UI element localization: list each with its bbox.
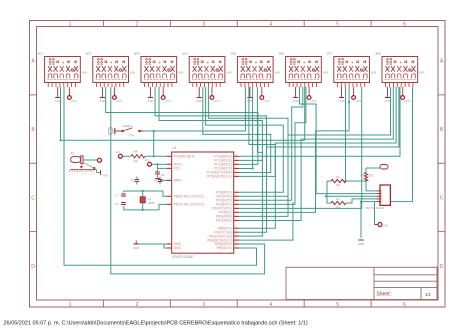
svg-text:GND: GND	[133, 246, 139, 250]
svg-text:K1: K1	[71, 152, 75, 156]
svg-text:+3V3: +3V3	[116, 99, 123, 103]
svg-text:1X09: 1X09	[128, 71, 136, 75]
svg-text:PC6(/RESET): PC6(/RESET)	[174, 155, 195, 159]
svg-text:GND: GND	[55, 99, 61, 103]
svg-text:ATMEGA328P: ATMEGA328P	[172, 255, 194, 259]
svg-text:GND: GND	[102, 174, 108, 178]
svg-text:6: 6	[403, 302, 406, 308]
svg-text:D: D	[440, 264, 444, 270]
svg-text:C4: C4	[154, 178, 158, 182]
svg-text:R2: R2	[336, 197, 340, 201]
svg-text:JP5: JP5	[230, 52, 236, 56]
svg-text:+3V3: +3V3	[71, 99, 78, 103]
svg-text:JP4: JP4	[182, 52, 188, 56]
svg-text:B: B	[31, 127, 35, 133]
svg-text:C: C	[31, 195, 35, 201]
svg-text:10k: 10k	[133, 159, 138, 163]
svg-text:1X09: 1X09	[80, 71, 88, 75]
svg-text:GND: GND	[147, 99, 153, 103]
svg-text:Vcc: Vcc	[145, 158, 150, 162]
svg-text:1X09: 1X09	[224, 71, 232, 75]
svg-text:1X09: 1X09	[321, 71, 329, 75]
svg-text:2: 2	[135, 302, 138, 308]
svg-text:3: 3	[202, 302, 205, 308]
svg-text:1X09: 1X09	[272, 71, 280, 75]
svg-text:GND: GND	[384, 99, 390, 103]
svg-text:JP8: JP8	[375, 52, 381, 56]
svg-text:GND: GND	[247, 99, 253, 103]
svg-text:GND: GND	[174, 246, 182, 250]
svg-text:GND: GND	[358, 242, 364, 246]
svg-text:PB6(XTAL1/TOSC1): PB6(XTAL1/TOSC1)	[174, 195, 204, 199]
svg-text:A: A	[31, 59, 35, 65]
svg-text:GND: GND	[292, 99, 298, 103]
svg-text:4: 4	[269, 21, 272, 27]
svg-text:U1: U1	[172, 146, 177, 150]
svg-text:1X09: 1X09	[176, 71, 184, 75]
svg-text:BLYST NANO: BLYST NANO	[366, 206, 385, 210]
svg-text:10k: 10k	[336, 205, 341, 209]
svg-text:PB5(SCK): PB5(SCK)	[216, 246, 231, 250]
svg-text:D: D	[31, 264, 35, 270]
svg-text:GND: GND	[196, 99, 202, 103]
svg-text:JP3: JP3	[134, 52, 140, 56]
svg-text:Sheet:: Sheet:	[377, 292, 391, 298]
svg-text:+3V3: +3V3	[355, 99, 362, 103]
svg-text:R1: R1	[336, 175, 340, 179]
svg-text:PB7(XTAL2/TOSC2): PB7(XTAL2/TOSC2)	[174, 203, 204, 207]
svg-text:1: 1	[69, 21, 72, 27]
svg-text:C1: C1	[115, 194, 119, 198]
svg-text:Q1: Q1	[148, 197, 152, 201]
svg-text:3: 3	[202, 21, 205, 27]
svg-text:2: 2	[135, 21, 138, 27]
svg-text:10k: 10k	[336, 183, 341, 187]
svg-text:5: 5	[336, 302, 339, 308]
svg-text:VCC: VCC	[174, 167, 182, 171]
svg-text:C: C	[440, 195, 444, 201]
svg-text:Png: Png	[129, 133, 135, 137]
svg-text:R4: R4	[134, 150, 138, 154]
svg-text:5: 5	[336, 21, 339, 27]
svg-text:6: 6	[403, 21, 406, 27]
svg-text:C2: C2	[115, 202, 119, 206]
svg-text:+3V3: +3V3	[213, 99, 220, 103]
svg-text:B: B	[440, 127, 444, 133]
svg-text:1X09: 1X09	[417, 71, 425, 75]
svg-text:+3V3: +3V3	[404, 99, 411, 103]
svg-text:10k: 10k	[369, 174, 374, 178]
svg-text:1X09: 1X09	[369, 71, 377, 75]
svg-text:1: 1	[69, 302, 72, 308]
svg-text:GND: GND	[338, 99, 344, 103]
svg-text:C5: C5	[161, 173, 165, 177]
svg-text:AREF: AREF	[174, 179, 183, 183]
svg-text:1/1: 1/1	[425, 292, 431, 297]
svg-text:PD7(AIN1): PD7(AIN1)	[216, 219, 232, 223]
svg-text:+3V3: +3V3	[164, 99, 171, 103]
svg-text:C3: C3	[130, 178, 134, 182]
svg-text:A: A	[440, 59, 444, 65]
svg-text:16MHz: 16MHz	[148, 202, 157, 205]
svg-text:PC5(ADC5/SCL): PC5(ADC5/SCL)	[207, 175, 232, 179]
svg-text:+5V: +5V	[383, 223, 388, 227]
svg-text:JP7: JP7	[327, 52, 333, 56]
svg-text:4: 4	[269, 302, 272, 308]
svg-text:JP2: JP2	[86, 52, 92, 56]
svg-text:+3V3: +3V3	[263, 99, 270, 103]
svg-text:RESET: RESET	[123, 124, 133, 128]
svg-text:JP1: JP1	[37, 52, 43, 56]
svg-text:JP6: JP6	[278, 52, 284, 56]
svg-text:26/05/2021 05:07 p. m. C:\Us: 26/05/2021 05:07 p. m. C:\Users\aldo\Doc…	[4, 321, 308, 327]
svg-text:GND: GND	[99, 99, 105, 103]
svg-text:R3: R3	[360, 174, 364, 178]
svg-text:+3V3: +3V3	[310, 99, 317, 103]
svg-text:Vcc: Vcc	[116, 150, 121, 154]
